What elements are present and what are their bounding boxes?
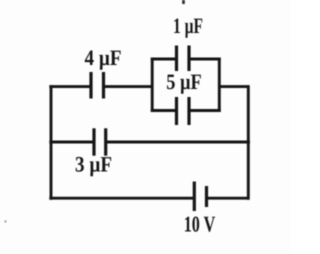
svg-text:10 V: 10 V: [184, 212, 216, 237]
capacitor 1 µF plates: [175, 46, 178, 72]
wire left vertical: [50, 85, 53, 200]
wire right vertical: [247, 85, 250, 200]
wire box bottom edge left part: [151, 109, 177, 112]
capacitor 5 µF plates: [175, 97, 178, 125]
wire box bottom edge right part: [189, 109, 221, 112]
node box left edge: [151, 58, 154, 112]
stray mark above 1 µF: [182, 0, 185, 4]
wire from box to right vertical: [219, 85, 249, 88]
wire top segment left of C-4uF: [49, 85, 91, 88]
battery 10 V short plate: [205, 186, 208, 207]
wire middle segment right of C-3uF: [106, 141, 250, 144]
capacitor 3 µF plates: [92, 128, 95, 155]
stray dot bottom left: [4, 220, 6, 222]
wire bottom segment right of battery: [207, 197, 250, 200]
wire box top edge left part: [151, 58, 177, 61]
svg-text:5 µF: 5 µF: [166, 69, 202, 94]
svg-text:1 µF: 1 µF: [173, 13, 203, 38]
wire top segment from C-4uF to parallel box: [104, 85, 154, 88]
wire box top edge right part: [189, 58, 221, 61]
node box right edge: [218, 58, 221, 112]
svg-text:4 µF: 4 µF: [85, 45, 122, 70]
battery 10 V long plate: [193, 182, 196, 212]
wire bottom segment left of battery: [49, 197, 194, 200]
wire middle segment left of C-3uF: [49, 141, 94, 144]
capacitor 4 µF plates: [89, 72, 92, 99]
svg-text:3 µF: 3 µF: [75, 152, 112, 177]
